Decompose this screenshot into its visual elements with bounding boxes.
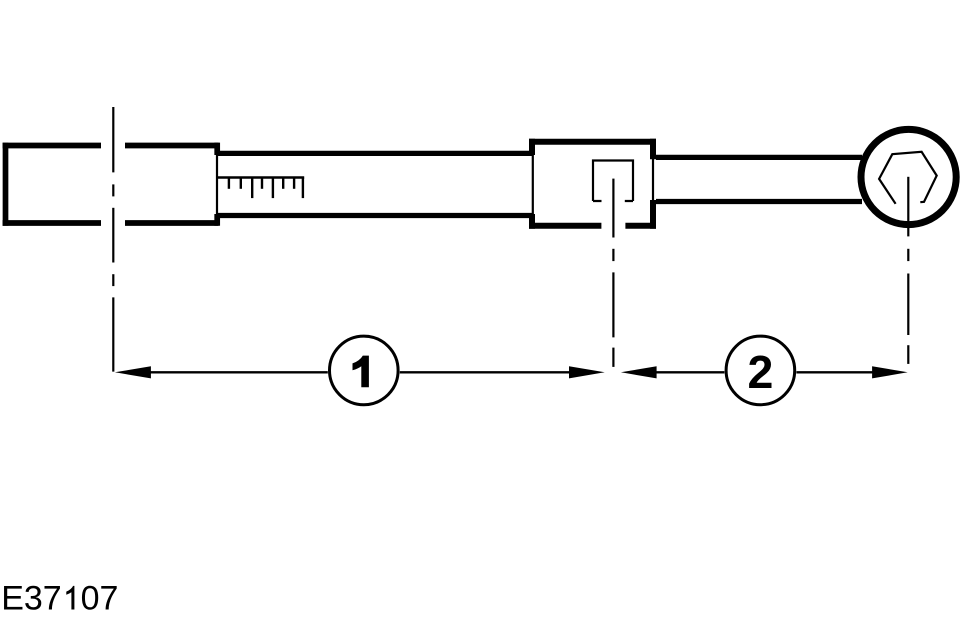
svg-text:E37: E37 — [1, 579, 62, 617]
svg-text:07: 07 — [81, 579, 119, 617]
svg-text:2: 2 — [747, 346, 773, 398]
